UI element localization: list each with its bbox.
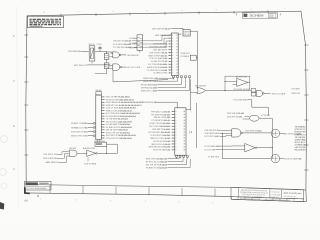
notes text scribble xyxy=(30,19,32,20)
svg-text:4AKZ KE8D 6I: 4AKZ KE8D 6I xyxy=(46,161,59,164)
svg-text:F0XC JB FBE FA AAA AAAA: F0XC JB FBE FA AAA AAAA xyxy=(106,96,131,99)
svg-text:X19J 0PP5 XB AAA: X19J 0PP5 XB AAA xyxy=(227,115,243,118)
svg-text:YA FAMU LIJ FAA: YA FAMU LIJ FAA xyxy=(71,126,88,129)
wire xyxy=(171,28,184,29)
punch hole top xyxy=(1,136,8,143)
svg-text:3U A7N K5 KBBA: 3U A7N K5 KBBA xyxy=(295,138,307,141)
svg-text:KU UA JN4H YCAA AAA AA: KU UA JN4H YCAA AAA AA xyxy=(106,123,131,126)
svg-text:UG TU9: UG TU9 xyxy=(184,34,190,36)
svg-text:0D4X 0WF LE8 AA AA: 0D4X 0WF LE8 AA AA xyxy=(152,27,171,30)
wire vertical bus E xyxy=(222,133,271,158)
svg-text:NJO 7DW G6G DAAA AA AA AA AA A: NJO 7DW G6G DAAA AA AA AA AA AA xyxy=(106,112,141,115)
svg-text:8Z RS 8MWP 8EA: 8Z RS 8MWP 8EA xyxy=(68,50,81,53)
svg-text:CHU DUU YM JAAA AA: CHU DUU YM JAAA AA xyxy=(113,40,132,43)
title block bottom cells xyxy=(237,197,239,200)
wire xyxy=(158,102,178,108)
wire xyxy=(111,52,113,53)
svg-text:EK 3KZ AFA 5BAA: EK 3KZ AFA 5BAA xyxy=(141,83,158,86)
svg-text:S0MV I1MC: S0MV I1MC xyxy=(96,90,102,92)
svg-text:FJ 9X E8XC: FJ 9X E8XC xyxy=(292,88,301,90)
nand gate G2 xyxy=(113,64,120,70)
svg-text:VCY R66 ZDF EA AAA: VCY R66 ZDF EA AAA xyxy=(113,46,132,49)
svg-text:FZC4 BG ESNI: FZC4 BG ESNI xyxy=(234,100,248,102)
svg-text:Z25F YKB 1N9B AAA: Z25F YKB 1N9B AAA xyxy=(227,112,245,115)
svg-text:R5R 12 FF C8F AA AAA AA: R5R 12 FF C8F AA AAA AA xyxy=(106,131,131,134)
svg-text:9ED XSB MK: 9ED XSB MK xyxy=(195,85,207,87)
svg-text:H6 O8O 6N VVEA AA: H6 O8O 6N VVEA AA xyxy=(153,140,171,143)
svg-text:51O ITGK H66 AA AAAA: 51O ITGK H66 AA AAAA xyxy=(148,63,168,66)
svg-text:00 UPWJ 1YHG: 00 UPWJ 1YHG xyxy=(153,73,167,75)
wire xyxy=(280,158,284,160)
svg-text:H7T PR 88NX AAA: H7T PR 88NX AAA xyxy=(205,145,220,148)
svg-text:VLCI LRY X0BF: VLCI LRY X0BF xyxy=(205,149,217,151)
wire xyxy=(190,30,197,32)
wire xyxy=(106,146,108,153)
drawing number box top-right xyxy=(243,13,278,18)
wire xyxy=(77,152,87,154)
svg-text:KZG BI MJK HB: KZG BI MJK HB xyxy=(284,196,296,198)
delay box DB1 xyxy=(251,89,256,92)
U2 inner pin number marks xyxy=(184,111,185,112)
svg-text:0NZ5 LB2: 0NZ5 LB2 xyxy=(292,93,301,95)
U3 right pin stubs and net labels xyxy=(101,96,104,98)
frame right border lower stub xyxy=(305,191,307,202)
svg-text:GML PEFA 3ILE AA AAAA AA AA AA: GML PEFA 3ILE AA AAAA AA AA AA AA 2F xyxy=(106,101,145,104)
wire xyxy=(259,117,272,119)
svg-text:VS WDTO 81RN AAA AAAA AA AA: VS WDTO 81RN AAA AAAA AA AA xyxy=(106,98,135,101)
right border zone ticks xyxy=(304,44,308,46)
tick left of number box xyxy=(236,13,238,15)
svg-text:3NSZ UTHC RJEA: 3NSZ UTHC RJEA xyxy=(71,135,88,138)
svg-text:5H 2R9L 9R4P: 5H 2R9L 9R4P xyxy=(272,194,282,196)
U2 left pin stubs and net labels xyxy=(172,111,175,113)
svg-text:C0V5 6V XWR FAA: C0V5 6V XWR FAA xyxy=(284,158,302,161)
svg-text:UMM UC UTF9 DA AAA: UMM UC UTF9 DA AAA xyxy=(150,137,171,140)
wire xyxy=(264,92,270,94)
wire xyxy=(107,144,118,153)
svg-text:GZ BND 0UN 5D AAAA AA AA: GZ BND 0UN 5D AAAA AA AA xyxy=(106,126,133,129)
svg-text:GRT IBC0 FS: GRT IBC0 FS xyxy=(74,65,88,67)
wire staircase xyxy=(220,129,232,132)
svg-text:3BW IU4 PH0Y AAA AA: 3BW IU4 PH0Y AAA AA xyxy=(148,54,168,57)
svg-text:DIO 4JI CC XDA: DIO 4JI CC XDA xyxy=(127,66,141,69)
svg-text:S1I 0U3N GK3 AA: S1I 0U3N GK3 AA xyxy=(234,88,251,91)
wire xyxy=(81,50,89,52)
wire xyxy=(168,158,180,160)
wire xyxy=(88,135,93,137)
svg-text:AK 3O9E 1XVV: AK 3O9E 1XVV xyxy=(236,75,248,78)
wire vertical bus B xyxy=(190,79,192,110)
svg-text:D: D xyxy=(13,34,15,38)
wire xyxy=(87,64,113,67)
svg-text:3NU 3A5 WLHK: 3NU 3A5 WLHK xyxy=(153,49,168,52)
wire xyxy=(196,57,197,59)
wire xyxy=(132,38,169,44)
nand gate N2 xyxy=(232,129,241,137)
svg-text:100: 100 xyxy=(269,15,274,18)
svg-text:YMGI 0MD XM CAA AAAA: YMGI 0MD XM CAA AAAA xyxy=(148,146,171,149)
svg-text:R8 NBU V9 OB AAA AAA: R8 NBU V9 OB AAA AAA xyxy=(146,166,168,169)
wire vertical bus D xyxy=(271,118,273,158)
wire xyxy=(225,80,237,82)
svg-text:A: A xyxy=(13,167,15,171)
svg-text:YG IPC8: YG IPC8 xyxy=(97,44,102,46)
wire L-route xyxy=(248,100,268,116)
svg-text:SBR1 RIRF ZZ AA AAAA: SBR1 RIRF ZZ AA AAAA xyxy=(152,128,171,131)
IC U3 body xyxy=(96,95,102,140)
svg-text:2OR PI IRN8: 2OR PI IRN8 xyxy=(84,164,97,166)
paper left edge xyxy=(17,6,19,208)
svg-text:9GRA ZYG A1 DAAA: 9GRA ZYG A1 DAAA xyxy=(143,77,159,80)
circle gate CG2 xyxy=(271,154,279,162)
wire xyxy=(88,122,93,124)
resistor R2 xyxy=(104,63,109,69)
wire xyxy=(159,79,178,81)
svg-text:2EBY 37YX RFG AAA: 2EBY 37YX RFG AAA xyxy=(284,192,303,196)
svg-text:RVD JXVE BH4: RVD JXVE BH4 xyxy=(295,150,306,152)
wire xyxy=(158,79,190,90)
svg-text:0Y 4PM Y9KX: 0Y 4PM Y9KX xyxy=(208,157,220,159)
svg-text:UXG YH: UXG YH xyxy=(184,31,190,33)
wire xyxy=(158,79,182,84)
svg-text:C: C xyxy=(13,79,15,83)
wire xyxy=(257,147,273,149)
svg-text:MT J9P 2II PDA AAAA: MT J9P 2II PDA AAAA xyxy=(146,163,168,166)
svg-text:(b): (b) xyxy=(25,199,28,203)
svg-text:DOY IR79 9AAC: DOY IR79 9AAC xyxy=(205,135,221,138)
wire xyxy=(168,159,191,168)
tick below stamp xyxy=(37,195,39,197)
svg-text:AJZE 9CXE E2A AAAA: AJZE 9CXE E2A AAAA xyxy=(147,66,168,69)
bottom band cell dividers xyxy=(49,185,51,193)
wire xyxy=(132,41,169,47)
wire vertical bus A xyxy=(197,31,199,88)
U1 bottom pin connectors xyxy=(173,76,175,78)
resistor pack RP1 xyxy=(137,35,143,51)
U3 header box xyxy=(96,92,102,95)
wire xyxy=(245,116,250,118)
wire R1-R2 xyxy=(106,59,108,63)
svg-text:VO4A YD7: VO4A YD7 xyxy=(181,52,190,55)
wire xyxy=(110,68,113,70)
svg-text:1URC BRV DAOF: 1URC BRV DAOF xyxy=(205,132,221,135)
title block outline xyxy=(231,187,304,199)
wire xyxy=(97,140,99,143)
frame left border xyxy=(26,16,27,185)
svg-text:DO FH2 AW H4 AAA AA AA AA AA: DO FH2 AW H4 AAA AA AA AA AA xyxy=(106,115,137,118)
svg-text:DJJI JY IX0K AAA AAAA AA AA: DJJI JY IX0K AAA AAAA AA AA xyxy=(106,107,137,110)
svg-text:Z0 AZST L3 WBAA: Z0 AZST L3 WBAA xyxy=(71,122,88,125)
wire xyxy=(168,159,184,162)
frame corner mark bottom-left xyxy=(24,187,30,194)
svg-text:E5NC T9KR I2BA AAA AAA: E5NC T9KR I2BA AAA AAA xyxy=(146,157,168,160)
wire G5 output xyxy=(205,90,251,92)
svg-text:WT 8RHK HL: WT 8RHK HL xyxy=(181,56,190,58)
wire xyxy=(280,132,284,134)
feedback loop wires xyxy=(225,76,250,90)
wire U2 top right xyxy=(186,109,191,112)
svg-text:CMM G5 CFR IB AAA: CMM G5 CFR IB AAA xyxy=(153,116,171,119)
wire xyxy=(88,131,93,133)
svg-text:CCH OLX W4A CA AA: CCH OLX W4A CA AA xyxy=(149,57,168,60)
svg-text:Z0J 9G 5X04 CAAA AAA AA AA: Z0J 9G 5X04 CAAA AAA AA AA xyxy=(106,120,133,123)
gate G7 xyxy=(250,115,259,121)
svg-text:R7 AF7W TD3: R7 AF7W TD3 xyxy=(295,133,306,136)
gate G1 output label xyxy=(121,54,126,56)
U1 right-side pin marks xyxy=(176,35,177,36)
svg-text:1EY NV FEZ0 BAA AAAA: 1EY NV FEZ0 BAA AAAA xyxy=(148,131,171,134)
svg-text:PO RP0 MYMT DAAA AAA: PO RP0 MYMT DAAA AAA xyxy=(150,134,171,137)
U1 left pin stubs and net labels xyxy=(168,34,171,36)
wire staircase xyxy=(57,152,69,155)
svg-text:ZT X0 IALK 9AA AAAA: ZT X0 IALK 9AA AAAA xyxy=(113,43,132,46)
svg-text:SWO KO1U 4I AA AA: SWO KO1U 4I AA AA xyxy=(151,143,171,146)
svg-text:C3FD KBH 4JW: C3FD KBH 4JW xyxy=(127,55,139,57)
svg-text:EX68 HP CG EA AAA AA AA AA AA: EX68 HP CG EA AAA AA AA AA AA AA H0 xyxy=(106,104,143,107)
title block lower strip xyxy=(231,199,304,201)
svg-text:CG UET CH1 WC AAA AAAA: CG UET CH1 WC AAA AAAA xyxy=(149,122,171,125)
svg-text:BSG 1HN: BSG 1HN xyxy=(87,148,96,150)
wire xyxy=(97,152,117,154)
wire xyxy=(168,159,187,165)
nand gate G6 xyxy=(257,90,263,96)
svg-text:SUDO NEZ 2OF AAA: SUDO NEZ 2OF AAA xyxy=(71,131,88,134)
bottom band top line xyxy=(26,185,306,191)
U1 right pin stub to Y1 xyxy=(178,32,181,35)
delay box DB2 xyxy=(251,93,256,96)
wire vertical bus C xyxy=(196,103,198,148)
svg-text:78 V6VA RZ: 78 V6VA RZ xyxy=(295,126,307,129)
wire xyxy=(88,126,93,128)
svg-text:7L VR9 P31 FCA AAA: 7L VR9 P31 FCA AAA xyxy=(147,69,168,72)
title block inner verticals xyxy=(237,188,239,197)
svg-text:YO1 BK BP FS AAA AA: YO1 BK BP FS AAA AA xyxy=(151,119,171,122)
svg-text:R4UP WF8R XU AAAA: R4UP WF8R XU AAAA xyxy=(246,130,263,133)
left border zone ticks xyxy=(24,34,28,36)
IC U1 body xyxy=(172,33,179,76)
svg-text:AJ 5BT FTU ZE AA: AJ 5BT FTU ZE AA xyxy=(151,60,168,63)
svg-text:GRW JJ LD W6DA: GRW JJ LD W6DA xyxy=(272,92,286,95)
RP1 pin stubs and labels xyxy=(134,37,137,39)
wire xyxy=(170,34,172,36)
oscillator Y1 box xyxy=(183,30,190,36)
svg-text:ZSU 7Y N9C 4FA AAA AAAA: ZSU 7Y N9C 4FA AAA AAAA xyxy=(149,125,171,128)
wire xyxy=(197,87,199,89)
svg-text:HCDX HY DB0M AA: HCDX HY DB0M AA xyxy=(153,149,171,152)
svg-text:R7H 31 M57 PAA AA: R7H 31 M57 PAA AA xyxy=(149,51,168,54)
wire xyxy=(159,78,174,79)
svg-text:T0DR PIRB: T0DR PIRB xyxy=(69,148,77,150)
svg-text:SCHEM: SCHEM xyxy=(250,15,264,18)
wire xyxy=(219,145,245,147)
svg-text:T7EL MZLC DV: T7EL MZLC DV xyxy=(43,154,57,156)
svg-text:NWNO 54PO L7 AAAA: NWNO 54PO L7 AAAA xyxy=(141,89,158,92)
gate G2 output label xyxy=(122,66,127,68)
U2 bottom pin connectors xyxy=(176,155,178,157)
punch hole corner xyxy=(1,183,7,189)
svg-text:G7 TDN STFJ: G7 TDN STFJ xyxy=(261,115,270,117)
title block row divider xyxy=(231,197,304,199)
svg-text:RTK RZPM 9PZ AAA AAA: RTK RZPM 9PZ AAA AAA xyxy=(151,113,171,116)
svg-text:BP RTT4 S0 GC AAA AAA: BP RTT4 S0 GC AAA AAA xyxy=(146,160,168,163)
top border zone ticks xyxy=(60,14,62,17)
svg-text:DKK 0FJ W7E BA: DKK 0FJ W7E BA xyxy=(205,129,221,132)
scan corner mark bottom-left xyxy=(0,202,4,210)
frame right border xyxy=(301,11,307,190)
capacitor C5 on bus xyxy=(190,55,196,60)
frame top border xyxy=(27,11,301,16)
notes box xyxy=(28,16,64,27)
svg-text:SHSD PJ GU ZEA AAAA AA AA: SHSD PJ GU ZEA AAAA AA AA xyxy=(106,109,133,112)
nand gate G1 xyxy=(113,52,120,58)
wire xyxy=(132,35,169,41)
circle gate CG1 xyxy=(271,129,279,137)
wire xyxy=(158,79,186,87)
svg-text:OP2O EVV IX CAA AAA AA AA: OP2O EVV IX CAA AAA AA AA xyxy=(106,137,133,140)
op-amp U5 xyxy=(245,144,255,152)
svg-text:17L YNF N8DE AA AA AAAA: 17L YNF N8DE AA AA AAAA xyxy=(106,118,129,121)
tick right of number box xyxy=(280,14,282,16)
IC U2 body xyxy=(175,108,186,155)
bottom band bottom line / frame bottom border xyxy=(26,193,231,197)
svg-text:FHR NZ0U CVJA AA AA: FHR NZ0U CVJA AA AA xyxy=(151,110,171,113)
long wire to gates xyxy=(113,80,168,82)
wire xyxy=(243,132,272,134)
approval stamp box xyxy=(25,181,52,190)
svg-text:SJOJ HUT 2FYA AA AAA AA AA AA: SJOJ HUT 2FYA AA AAA AA AA AA xyxy=(106,134,137,137)
resistor R1 xyxy=(104,54,109,60)
svg-text:DEE 1E 16KP EAAA AA AA: DEE 1E 16KP EAAA AA AA xyxy=(106,129,129,132)
wire main row xyxy=(95,50,113,53)
svg-text:ODE 6JKR 86: ODE 6JKR 86 xyxy=(43,158,57,160)
svg-text:XPM F640 7A0 AAAA: XPM F640 7A0 AAAA xyxy=(141,86,158,89)
buffer box U3A xyxy=(95,142,107,146)
punch hole middle xyxy=(0,169,7,176)
svg-text:I4 GX ZBK: I4 GX ZBK xyxy=(272,196,279,198)
svg-text:B: B xyxy=(13,124,15,128)
wire xyxy=(139,50,141,52)
